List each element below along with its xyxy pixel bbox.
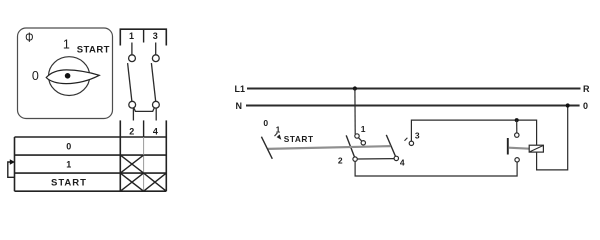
svg-text:START: START <box>284 134 314 144</box>
gray link plunger to coil <box>509 148 529 149</box>
svg-text:4: 4 <box>153 127 158 137</box>
knob pointer handle <box>46 70 99 84</box>
terminal 2 lead <box>132 108 134 121</box>
terminal 4 lead <box>155 108 157 121</box>
svg-text:1: 1 <box>361 124 366 134</box>
svg-text:1: 1 <box>66 159 71 169</box>
svg-text:0: 0 <box>32 69 39 83</box>
wire coil bottom to N <box>537 106 568 170</box>
knob center dot <box>65 73 71 79</box>
pushbutton bottom contact circle <box>515 158 519 162</box>
bottom bracket right stub <box>165 120 167 137</box>
svg-text:2: 2 <box>338 156 343 166</box>
contact circle terminal 4 <box>153 101 160 108</box>
pushbutton plunger bar <box>507 138 509 155</box>
contact 1 bridge lower circle <box>361 141 365 145</box>
contact blade 1-2 <box>128 63 132 101</box>
knob circle <box>49 57 90 96</box>
contact state table grid <box>15 137 167 191</box>
switch front-plate box S1 <box>18 28 113 119</box>
svg-text:0: 0 <box>583 101 588 111</box>
bottom bracket left stub <box>119 120 121 137</box>
svg-text:0: 0 <box>66 141 71 151</box>
svg-text:Φ: Φ <box>25 30 33 46</box>
node on L1 <box>353 86 357 90</box>
START switch blade <box>261 137 272 159</box>
link bar between contacts 2 and 4 <box>134 107 155 111</box>
svg-text:4: 4 <box>400 158 405 168</box>
wire node to pushbutton top <box>516 120 518 133</box>
contact circle terminal 1 <box>129 55 136 62</box>
svg-text:0: 0 <box>263 118 268 128</box>
contact circle terminal 2 <box>129 101 136 108</box>
contact circle terminal 3 <box>152 55 159 62</box>
top bracket middle tick <box>143 29 145 42</box>
contact 1 bridge upper circle <box>355 134 359 138</box>
svg-text:R: R <box>583 84 590 94</box>
line N <box>246 105 580 107</box>
contact 1 bridge link <box>359 138 362 142</box>
pushbutton top contact circle <box>515 133 519 137</box>
blade contact 3-4 <box>386 135 395 157</box>
X mark row START contacts 3-4 <box>144 173 167 191</box>
svg-text:START: START <box>51 177 87 188</box>
table thin middle column divider <box>143 137 145 191</box>
node on N <box>566 103 570 107</box>
terminal strip top bracket <box>120 29 166 45</box>
X mark row START contacts 1-2 <box>120 173 143 191</box>
svg-text:L1: L1 <box>235 84 246 94</box>
riser from contact 3 to rail <box>411 120 536 145</box>
node on rail above pushbutton <box>515 118 519 122</box>
X mark row 1 contacts 1-2 <box>120 155 143 173</box>
svg-text:3: 3 <box>415 130 420 140</box>
bottom bracket middle stub <box>143 120 145 137</box>
position tick for 1 <box>275 133 278 136</box>
svg-text:1: 1 <box>129 31 134 41</box>
spring arrow at switch <box>277 134 282 139</box>
position tick for contact 3 <box>405 138 408 141</box>
line L1 <box>247 88 581 90</box>
svg-text:2: 2 <box>129 127 134 137</box>
svg-text:1: 1 <box>63 38 70 52</box>
blade contact 1-2 <box>346 135 354 157</box>
wire from 2 to 4 <box>357 158 394 160</box>
contact circle 3 <box>409 141 413 145</box>
contact circle 2 <box>353 157 357 161</box>
svg-text:N: N <box>236 101 243 111</box>
svg-text:3: 3 <box>153 31 158 41</box>
terminal 1 lead <box>131 43 133 55</box>
gray path wire from START switch <box>268 146 391 149</box>
contact blade 3-4 <box>151 63 155 101</box>
wire L1 down to contact 1 <box>354 89 356 135</box>
contact circle 4 <box>394 156 398 160</box>
wire pushbutton bottom down and left to contact 2 <box>355 161 517 176</box>
coil diagonal <box>530 146 543 152</box>
terminal 3 lead <box>155 43 157 55</box>
svg-text:START: START <box>77 44 110 55</box>
relay coil K1 <box>529 145 543 152</box>
spring-return arrow START to 1 <box>8 162 15 177</box>
